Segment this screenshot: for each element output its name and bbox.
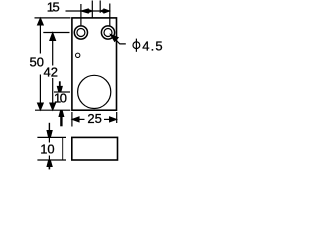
ext line hole centers (left) — [43, 32, 69, 34]
front view plate outline — [72, 18, 117, 110]
phi 4.5 leader line — [110, 34, 126, 44]
hole H1 outer (counterbore) — [74, 26, 87, 39]
svg-text:25: 25 — [87, 111, 101, 126]
dim 42 line lower — [52, 78, 54, 110]
large hole — [78, 75, 111, 108]
dim 10 down arrow — [57, 86, 62, 92]
dim 25 left arrow — [72, 117, 79, 122]
svg-text:4.5: 4.5 — [142, 39, 164, 54]
dim 25 right arrow — [110, 117, 117, 122]
ext line bottom edge (left) — [35, 109, 70, 111]
side dim 10 ext top — [37, 136, 66, 138]
dim 42 bottom arrow — [50, 103, 56, 110]
hole H2 inner phi4.5 — [104, 29, 112, 37]
dim 15 right arrow a (points left to ext C) — [100, 9, 104, 12]
side view plate outline — [72, 137, 118, 160]
side dim 10 ext bottom — [37, 159, 66, 161]
ext line large hole center (left) — [54, 91, 70, 93]
dim 15 right arrow — [104, 9, 110, 13]
dim 15 ext line A — [80, 4, 82, 25]
dim 25 line left — [72, 118, 85, 120]
dim 42 top arrow — [50, 33, 56, 41]
svg-text:42: 42 — [44, 64, 58, 79]
hole H1 inner phi4.5 — [77, 29, 85, 37]
side dim 10 lower segment — [48, 156, 50, 161]
dim 42 line upper — [52, 33, 54, 66]
dim 50 line upper — [39, 18, 41, 54]
svg-text:10: 10 — [40, 142, 54, 157]
phi 4.5 leader arrow — [110, 34, 118, 41]
dim 25 ext right — [116, 112, 118, 123]
hole H2 outer (counterbore) — [101, 26, 114, 39]
dim 15 ext line D — [109, 4, 111, 27]
side dim 10 up arrow — [47, 160, 52, 166]
side dim 10 upper segment — [48, 137, 50, 142]
side dim 10 vertical end line — [62, 137, 64, 160]
side dim 10 upper shaft — [48, 123, 50, 131]
dim 50 bottom arrow — [37, 103, 43, 110]
side dim 10 lower shaft — [48, 166, 50, 169]
dim 15 line — [66, 10, 110, 12]
dim 50 top arrow — [37, 18, 43, 25]
dim 25 ext left — [71, 112, 73, 127]
dim 25 line right — [104, 118, 117, 120]
phi 4.5 text: phi symbol drawn as circle+bar — [133, 42, 140, 49]
dim 15 ext line C — [99, 1, 101, 13]
dim 15 left arrow b (points right to ext B) — [88, 9, 92, 12]
dim 15 left arrow — [81, 9, 88, 13]
dim 10 up arrow — [59, 111, 64, 117]
svg-text:50: 50 — [30, 54, 44, 69]
small hole — [76, 53, 80, 57]
side dim 10 down arrow — [47, 130, 52, 137]
ext line top edge (left) — [35, 17, 71, 19]
dim 10 upper shaft — [59, 81, 61, 87]
svg-text:15: 15 — [47, 0, 60, 15]
dim 15 ext line B — [91, 1, 93, 18]
svg-text:10: 10 — [54, 91, 67, 106]
dim 10 lower shaft — [60, 116, 62, 126]
dim 50 line lower — [39, 75, 41, 111]
